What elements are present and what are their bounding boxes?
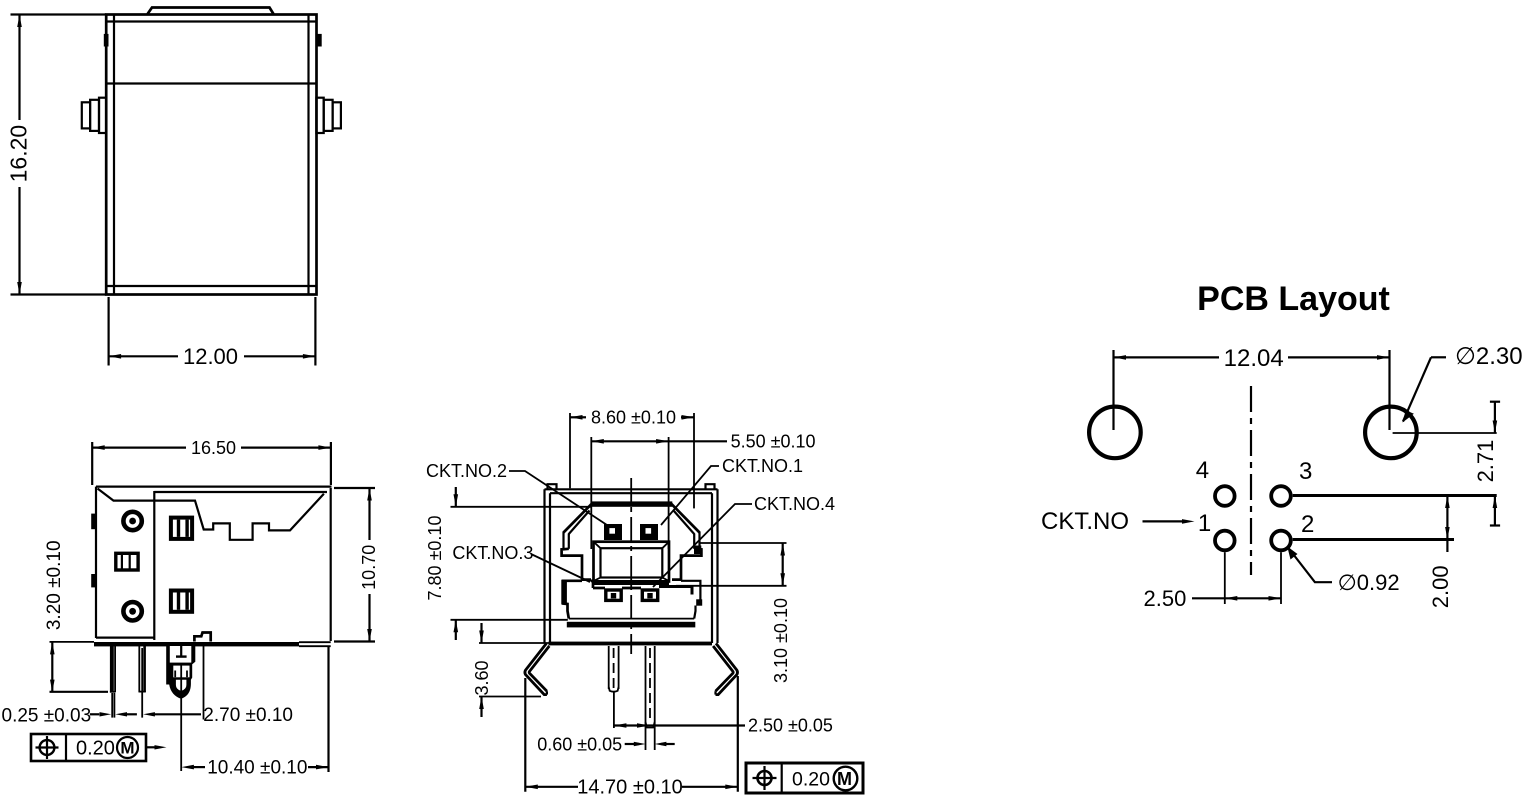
top edge extended left as extension line [11, 13, 107, 15]
svg-text:M: M [120, 739, 134, 758]
dim 3.60 extension top (body bottom extended) [479, 642, 549, 644]
dim 2.71 lower segment [1494, 496, 1496, 526]
svg-text:0.20: 0.20 [76, 738, 115, 760]
pin2 edge extension lines [645, 723, 647, 750]
svg-text:CKT.NO.4: CKT.NO.4 [754, 494, 835, 514]
dim 16.20 arrow up [17, 15, 22, 28]
svg-text:∅0.92: ∅0.92 [1338, 570, 1400, 595]
shell opening top thick bar [591, 501, 672, 506]
dim 0.25 tail line [126, 713, 137, 715]
circled M modifier [834, 767, 858, 791]
CKT.NO.1 leader [661, 466, 719, 525]
circled M modifier [117, 737, 138, 758]
shield leg mid dashes [174, 671, 176, 678]
svg-text:16.20: 16.20 [6, 125, 32, 183]
corner tab left [548, 484, 557, 489]
pedestal left contour [563, 581, 582, 619]
shield leg center line + extension [180, 663, 182, 771]
dim 16.20 arrow down [17, 282, 22, 295]
body contact window top [171, 518, 192, 539]
bottom plate thick bar [567, 622, 696, 628]
flange left edge bump bottom [91, 574, 96, 587]
dim 5.50 dimension line [591, 440, 668, 442]
dim 3.20 extension top (body bottom extended) [50, 641, 95, 643]
pin1 edge extension lines [111, 693, 113, 718]
inner wall line left [113, 15, 115, 295]
left side tab step 1 [82, 102, 90, 128]
svg-text:0.20: 0.20 [792, 768, 830, 790]
pad 1 [1215, 531, 1235, 551]
contact pad CKT1 (top-right), black block [640, 524, 658, 540]
contact pad CKT4 (bottom-right) [642, 590, 657, 600]
CKT.NO.3 leader [531, 554, 590, 582]
body right edge [330, 488, 332, 641]
dim 2.70 arrow [143, 712, 155, 716]
body top edges [545, 488, 718, 490]
dia 2.30 leader [1403, 357, 1431, 421]
dim 3.10 dimension line [782, 543, 784, 586]
right side tab step 2 [324, 100, 333, 131]
shell latch crown profile [154, 494, 324, 540]
dim 3.20 arrows [50, 642, 55, 655]
bottom base thick bar [94, 642, 299, 646]
dim 12.04 extension left (into hole center) [1112, 350, 1114, 430]
dim 7.80 dimension line top segment [455, 487, 457, 507]
body outer left walls [543, 489, 545, 643]
svg-text:12.00: 12.00 [183, 344, 238, 369]
dim 0.60 left segment with arrow [625, 743, 639, 745]
dim 2.70 leader to text [155, 713, 202, 715]
shield leg center line upper [180, 646, 182, 656]
position tolerance frame 1 [31, 734, 146, 761]
pin 2 (front view) [645, 646, 647, 723]
left wall tick [104, 34, 109, 47]
dim 12.00 dimension line [109, 355, 178, 357]
dim 3.10 extension top [700, 542, 787, 544]
svg-text:0.25 ±0.03: 0.25 ±0.03 [2, 706, 92, 727]
svg-text:2.70 ±0.10: 2.70 ±0.10 [203, 705, 293, 726]
dim 0.25 leader line [90, 713, 99, 715]
flange round hole top [123, 512, 141, 530]
body bottom bar [549, 642, 713, 646]
dim 8.60 extension left [569, 413, 571, 488]
dim 3.60 extension bottom (leg tip level) [479, 696, 541, 698]
dim 16.20 extension line bottom [11, 293, 107, 295]
left side tab step 2 [90, 100, 99, 131]
body top edge [96, 486, 332, 488]
connector body outline (top view) [106, 15, 316, 295]
dim 0.25 arrow right [115, 712, 127, 716]
flange top chamfer [98, 489, 155, 501]
dim 10.70 dimension line [368, 488, 370, 540]
dim 16.50 arrows [92, 445, 105, 450]
flange bottom edge [96, 636, 155, 638]
svg-text:CKT.NO.2: CKT.NO.2 [426, 461, 507, 481]
dim 3.10 extension bottom [676, 585, 787, 587]
svg-text:12.04: 12.04 [1224, 345, 1284, 372]
flange square hole [116, 553, 138, 570]
dim 16.20 dimension line [18, 15, 20, 121]
dim 16.50 dimension line [92, 447, 186, 449]
inner top line [106, 20, 316, 22]
dim 2.50 dimension line [614, 724, 745, 726]
svg-text:14.70 ±0.10: 14.70 ±0.10 [577, 776, 683, 798]
body contact window bottom [171, 591, 192, 612]
bottom base thin extension to right edge [299, 641, 331, 643]
svg-text:2: 2 [1301, 511, 1314, 538]
dim 2.50 dimension line [1192, 597, 1281, 599]
svg-text:10.70: 10.70 [359, 545, 379, 590]
dim 5.50 extension right [668, 437, 670, 549]
pin 1 (side view) [110, 646, 114, 693]
corner tab right [706, 484, 715, 489]
dim 12.00 extension line left [107, 297, 109, 366]
shell chamfer inner left [569, 511, 590, 535]
dim 2.00 dimension line [1446, 496, 1448, 553]
hole center extension line right [1393, 432, 1497, 434]
pad2 bottom extension [1280, 552, 1282, 604]
dim 2.71 upper segment [1494, 402, 1496, 433]
dim 10.70 arrows [367, 488, 372, 501]
pedestal step left near pads [591, 580, 593, 588]
shield leg silhouette [166, 646, 195, 699]
vertical centerline [630, 478, 632, 654]
pad 3 [1271, 486, 1291, 506]
mounting leg right (chevron) [716, 643, 738, 694]
position symbol [40, 740, 55, 755]
svg-text:1: 1 [1198, 510, 1211, 537]
contact pad CKT2 (top-left), black block [604, 524, 622, 540]
pin1 center extension line [613, 692, 615, 728]
bottom plate thin line [569, 618, 694, 620]
svg-text:4: 4 [1196, 457, 1209, 484]
pad1 bottom extension [1224, 552, 1226, 604]
extension line right of leg [203, 644, 205, 720]
dim 14.70 extension right [737, 676, 739, 792]
flange left edge bump top [91, 514, 96, 530]
inner bottom line [106, 285, 316, 287]
right wall tick [317, 34, 322, 47]
dim 10.70 extension bottom [334, 640, 375, 642]
pad3 extension line right [1293, 494, 1497, 497]
dia 0.92 leader [1288, 548, 1332, 583]
right side tab step 3 [316, 98, 323, 133]
pin2 center extension line [141, 648, 143, 718]
svg-text:7.80 ±0.10: 7.80 ±0.10 [425, 516, 445, 601]
svg-text:5.50 ±0.10: 5.50 ±0.10 [731, 432, 816, 452]
dim 12.04 extension right (into hole center) [1388, 350, 1390, 430]
dim 5.50 arrows [591, 439, 604, 444]
pedestal top edge center [622, 587, 641, 590]
dim 14.70 extension left [524, 678, 526, 792]
body outer right walls [716, 489, 718, 643]
svg-text:CKT.NO.1: CKT.NO.1 [722, 456, 803, 476]
position tolerance frame 2 [746, 763, 863, 793]
pad 2 [1271, 531, 1291, 551]
shell wall right [698, 532, 700, 549]
dim 7.80 extension top [451, 506, 592, 508]
frame leader arrow [146, 746, 155, 748]
dim 3.60 dimension line top segment [480, 623, 482, 643]
pin 2 (side view) [138, 646, 140, 693]
tongue outer bottom thick edge [594, 580, 670, 585]
dim 8.60 dimension line [570, 416, 586, 418]
svg-text:3: 3 [1299, 458, 1312, 485]
CKT.NO.4 leader [653, 504, 752, 587]
svg-text:3.60: 3.60 [472, 660, 492, 695]
dim 12.00 arrow right [303, 354, 316, 359]
shell shoulder + waist left [562, 549, 591, 580]
solder bump right of shield leg [194, 633, 210, 642]
svg-text:16.50: 16.50 [191, 438, 236, 458]
dim 3.60 dimension line bottom segment [480, 697, 482, 718]
svg-text:CKT.NO: CKT.NO [1041, 508, 1129, 535]
dim 3.20 extension bottom [50, 691, 109, 693]
svg-text:2.50: 2.50 [1144, 586, 1187, 611]
left side tab step 3 [99, 98, 106, 133]
centerline dash-dot [1250, 386, 1252, 575]
contact pad CKT3 (bottom-left) [606, 590, 621, 600]
pedestal right contour [681, 581, 700, 600]
dim 5.50 extension left [590, 437, 592, 549]
svg-text:3.20 ±0.10: 3.20 ±0.10 [44, 540, 65, 630]
position symbol [758, 771, 772, 785]
svg-text:M: M [837, 769, 852, 789]
shell shoulder + waist right [672, 549, 701, 580]
top tab [148, 8, 274, 15]
body top second line [154, 491, 327, 493]
shell seam line [106, 82, 316, 84]
dim 16.50 extension right [330, 442, 332, 485]
mounting hole right [1365, 407, 1417, 459]
CKT.NO.2 leader [509, 471, 610, 527]
svg-text:2.71: 2.71 [1473, 440, 1498, 483]
shell chamfer outer left [564, 504, 593, 533]
dim 12.00 arrow left [109, 354, 122, 359]
shield leg tip cavity [176, 680, 187, 691]
shield leg mid cavity [173, 666, 189, 678]
inner wall line right [307, 15, 309, 295]
dim 7.80 dimension line bottom segment [455, 620, 457, 640]
dim 16.50 extension left [91, 442, 93, 485]
flange right edge [153, 491, 155, 640]
shell chamfer outer right [671, 504, 700, 533]
dim 3.20 dimension line [51, 642, 53, 692]
shield leg upper cavity [170, 646, 192, 663]
dim 10.40 right extension line [327, 647, 329, 772]
mounting leg left (chevron) [525, 643, 547, 694]
body left edge [95, 487, 97, 638]
svg-text:∅2.30: ∅2.30 [1455, 343, 1523, 370]
flange round hole bottom [123, 602, 141, 620]
dim 12.04 dimension line [1114, 356, 1220, 358]
CKT.NO arrow [1143, 520, 1187, 522]
dim 8.60 extension right [693, 413, 695, 508]
dim 7.80 extension bottom [451, 619, 568, 621]
svg-text:0.60 ±0.05: 0.60 ±0.05 [537, 734, 622, 754]
dim 14.70 dimension line [525, 786, 578, 788]
shield leg crossbar [176, 655, 187, 657]
dim 10.70 extension top [334, 487, 375, 489]
dim 10.40 tail and arrow right [308, 766, 329, 768]
pad 4 [1215, 486, 1235, 506]
svg-text:3.10 ±0.10: 3.10 ±0.10 [771, 598, 791, 683]
svg-text:10.40 ±0.10: 10.40 ±0.10 [207, 757, 307, 778]
dim 8.60 arrows [570, 415, 583, 420]
pad2 extension line right [1293, 538, 1454, 541]
dim 12.00 extension line right [314, 297, 316, 366]
svg-text:2.50 ±0.05: 2.50 ±0.05 [748, 716, 833, 736]
dim 0.60 right segment with arrow [655, 742, 667, 746]
dim 0.25 arrow left [100, 712, 112, 716]
tongue inner rect [601, 548, 663, 577]
shell wall left [562, 532, 564, 549]
svg-text:PCB Layout: PCB Layout [1197, 280, 1390, 318]
tongue outer rect [594, 542, 670, 582]
svg-text:8.60 ±0.10: 8.60 ±0.10 [591, 408, 676, 428]
pedestal top edge right of pad [659, 585, 692, 588]
shell chamfer inner right [674, 511, 695, 535]
svg-text:2.00: 2.00 [1428, 565, 1453, 608]
pin 1 (front view) [608, 646, 610, 689]
dim 10.40 dimension line [181, 765, 194, 770]
svg-text:CKT.NO.3: CKT.NO.3 [452, 543, 533, 563]
right side tab step 1 [333, 102, 341, 128]
mounting hole left [1089, 407, 1141, 459]
pedestal top edge left of pad [593, 587, 605, 590]
tongue corner bevels [595, 543, 601, 549]
